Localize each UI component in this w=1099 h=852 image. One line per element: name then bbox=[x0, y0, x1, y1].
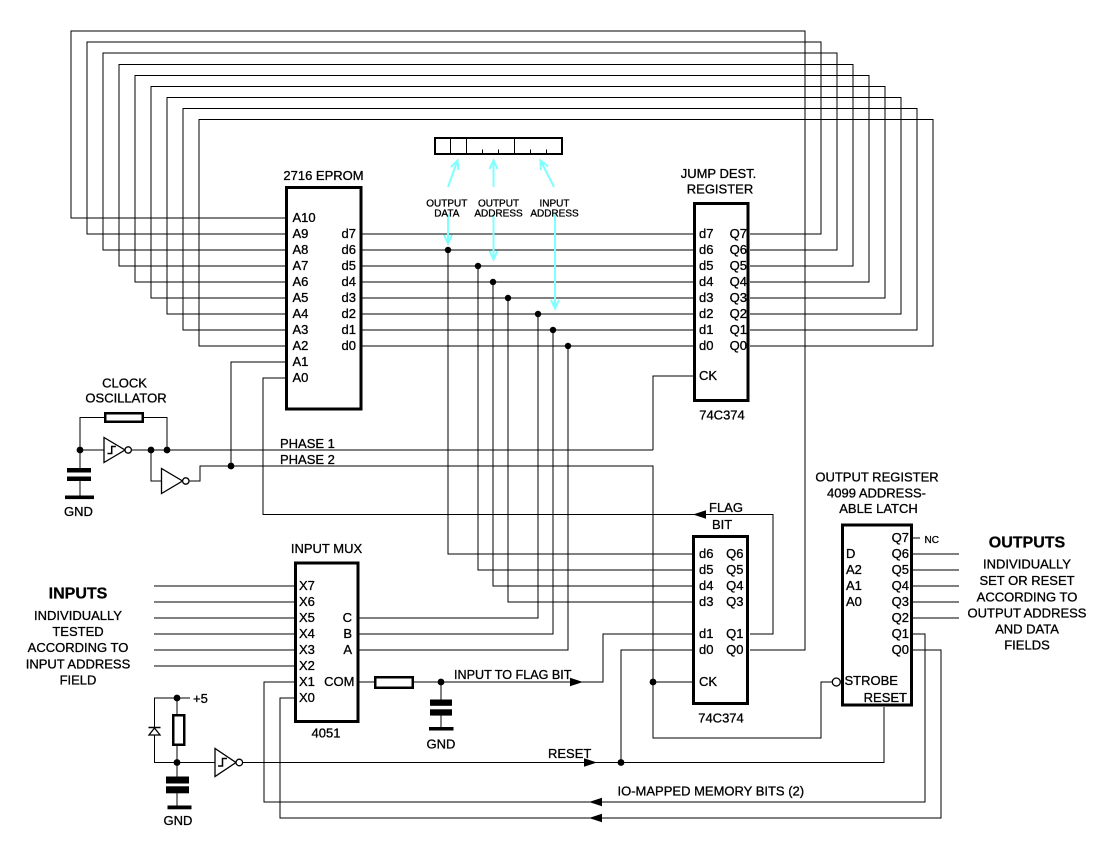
svg-text:A8: A8 bbox=[293, 242, 309, 257]
svg-text:d7: d7 bbox=[699, 226, 713, 241]
svg-text:ACCORDING TO: ACCORDING TO bbox=[28, 640, 129, 655]
svg-text:CK: CK bbox=[699, 674, 717, 689]
svg-text:JUMP DEST.: JUMP DEST. bbox=[681, 166, 757, 181]
svg-text:PHASE 1: PHASE 1 bbox=[280, 436, 335, 451]
svg-text:Q4: Q4 bbox=[730, 274, 747, 289]
svg-text:INPUT MUX: INPUT MUX bbox=[291, 541, 363, 556]
svg-text:d6: d6 bbox=[342, 242, 356, 257]
svg-text:2716 EPROM: 2716 EPROM bbox=[283, 168, 363, 183]
svg-text:A2: A2 bbox=[846, 562, 862, 577]
svg-text:X6: X6 bbox=[299, 594, 315, 609]
svg-text:A: A bbox=[343, 642, 352, 657]
svg-text:A9: A9 bbox=[293, 226, 309, 241]
svg-text:Q3: Q3 bbox=[892, 594, 909, 609]
svg-text:B: B bbox=[343, 626, 352, 641]
svg-text:d5: d5 bbox=[342, 258, 356, 273]
svg-text:ADDRESS: ADDRESS bbox=[474, 209, 523, 220]
svg-text:d0: d0 bbox=[699, 338, 713, 353]
svg-text:4051: 4051 bbox=[312, 726, 341, 741]
svg-text:Q0: Q0 bbox=[730, 338, 747, 353]
svg-text:X3: X3 bbox=[299, 642, 315, 657]
svg-text:d2: d2 bbox=[699, 306, 713, 321]
svg-text:d3: d3 bbox=[342, 290, 356, 305]
svg-text:ABLE LATCH: ABLE LATCH bbox=[839, 501, 918, 516]
svg-text:REGISTER: REGISTER bbox=[687, 182, 753, 197]
svg-text:Q1: Q1 bbox=[892, 626, 909, 641]
svg-text:d4: d4 bbox=[699, 578, 713, 593]
svg-text:Q4: Q4 bbox=[726, 578, 743, 593]
svg-text:ACCORDING TO: ACCORDING TO bbox=[977, 590, 1078, 605]
svg-text:d6: d6 bbox=[699, 242, 713, 257]
svg-text:RESET: RESET bbox=[548, 746, 591, 761]
svg-text:d3: d3 bbox=[699, 594, 713, 609]
svg-text:OUTPUT ADDRESS: OUTPUT ADDRESS bbox=[968, 606, 1087, 621]
svg-text:d3: d3 bbox=[699, 290, 713, 305]
svg-text:STROBE: STROBE bbox=[845, 673, 899, 688]
svg-text:INPUTS: INPUTS bbox=[49, 586, 108, 603]
svg-text:FIELD: FIELD bbox=[60, 673, 97, 688]
svg-text:Q0: Q0 bbox=[892, 642, 909, 657]
svg-text:d1: d1 bbox=[342, 322, 356, 337]
svg-text:OSCILLATOR: OSCILLATOR bbox=[85, 391, 166, 406]
svg-text:Q3: Q3 bbox=[726, 594, 743, 609]
svg-text:X0: X0 bbox=[299, 690, 315, 705]
svg-text:Q2: Q2 bbox=[730, 306, 747, 321]
svg-text:COM: COM bbox=[324, 674, 354, 689]
svg-text:Q6: Q6 bbox=[730, 242, 747, 257]
svg-text:Q6: Q6 bbox=[892, 546, 909, 561]
svg-text:Q4: Q4 bbox=[892, 578, 909, 593]
svg-text:TESTED: TESTED bbox=[52, 624, 103, 639]
svg-text:RESET: RESET bbox=[864, 690, 907, 705]
svg-text:Q1: Q1 bbox=[730, 322, 747, 337]
svg-text:d2: d2 bbox=[342, 306, 356, 321]
svg-text:Q7: Q7 bbox=[730, 226, 747, 241]
svg-text:A7: A7 bbox=[293, 258, 309, 273]
svg-text:X4: X4 bbox=[299, 626, 315, 641]
svg-text:NC: NC bbox=[925, 535, 939, 546]
svg-text:d4: d4 bbox=[342, 274, 356, 289]
svg-text:A1: A1 bbox=[293, 354, 309, 369]
svg-text:d6: d6 bbox=[699, 546, 713, 561]
svg-text:d0: d0 bbox=[699, 642, 713, 657]
svg-text:C: C bbox=[343, 610, 352, 625]
svg-text:A6: A6 bbox=[293, 274, 309, 289]
svg-text:X5: X5 bbox=[299, 610, 315, 625]
svg-text:d0: d0 bbox=[342, 338, 356, 353]
svg-text:INDIVIDUALLY: INDIVIDUALLY bbox=[983, 557, 1071, 572]
svg-text:FIELDS: FIELDS bbox=[1004, 638, 1050, 653]
svg-text:INPUT TO FLAG BIT: INPUT TO FLAG BIT bbox=[454, 667, 572, 682]
svg-text:Q5: Q5 bbox=[726, 562, 743, 577]
svg-text:IO-MAPPED MEMORY BITS (2): IO-MAPPED MEMORY BITS (2) bbox=[618, 784, 805, 799]
svg-text:Q7: Q7 bbox=[892, 530, 909, 545]
svg-text:BIT: BIT bbox=[712, 517, 732, 532]
svg-text:X2: X2 bbox=[299, 658, 315, 673]
svg-text:Q2: Q2 bbox=[892, 610, 909, 625]
svg-text:CK: CK bbox=[699, 368, 717, 383]
svg-text:74C374: 74C374 bbox=[698, 711, 744, 726]
svg-text:d1: d1 bbox=[699, 322, 713, 337]
svg-text:Q6: Q6 bbox=[726, 546, 743, 561]
svg-text:Q3: Q3 bbox=[730, 290, 747, 305]
svg-text:d5: d5 bbox=[699, 562, 713, 577]
svg-text:X7: X7 bbox=[299, 578, 315, 593]
svg-text:d5: d5 bbox=[699, 258, 713, 273]
svg-text:d1: d1 bbox=[699, 626, 713, 641]
svg-text:A1: A1 bbox=[846, 578, 862, 593]
svg-text:INDIVIDUALLY: INDIVIDUALLY bbox=[34, 608, 122, 623]
svg-text:A5: A5 bbox=[293, 290, 309, 305]
svg-text:A4: A4 bbox=[293, 306, 309, 321]
svg-text:GND: GND bbox=[164, 813, 193, 828]
svg-text:GND: GND bbox=[64, 504, 93, 519]
svg-text:OUTPUT REGISTER: OUTPUT REGISTER bbox=[815, 470, 938, 485]
svg-text:Q5: Q5 bbox=[730, 258, 747, 273]
svg-text:d4: d4 bbox=[699, 274, 713, 289]
svg-text:A0: A0 bbox=[846, 594, 862, 609]
svg-text:d7: d7 bbox=[342, 226, 356, 241]
svg-text:A3: A3 bbox=[293, 322, 309, 337]
svg-text:Q0: Q0 bbox=[726, 642, 743, 657]
svg-text:SET OR RESET: SET OR RESET bbox=[979, 573, 1074, 588]
svg-text:Q5: Q5 bbox=[892, 562, 909, 577]
svg-text:74C374: 74C374 bbox=[699, 408, 745, 423]
svg-text:PHASE 2: PHASE 2 bbox=[280, 452, 335, 467]
svg-text:A2: A2 bbox=[293, 338, 309, 353]
svg-text:DATA: DATA bbox=[434, 209, 460, 220]
svg-text:AND DATA: AND DATA bbox=[995, 622, 1059, 637]
svg-text:A10: A10 bbox=[293, 210, 316, 225]
svg-text:INPUT ADDRESS: INPUT ADDRESS bbox=[26, 657, 131, 672]
svg-text:X1: X1 bbox=[299, 674, 315, 689]
svg-text:4099 ADDRESS-: 4099 ADDRESS- bbox=[827, 486, 926, 501]
svg-text:OUTPUTS: OUTPUTS bbox=[989, 535, 1066, 552]
svg-text:ADDRESS: ADDRESS bbox=[530, 209, 579, 220]
svg-text:FLAG: FLAG bbox=[709, 500, 743, 515]
svg-text:GND: GND bbox=[427, 737, 456, 752]
svg-text:D: D bbox=[846, 546, 855, 561]
svg-text:A0: A0 bbox=[293, 370, 309, 385]
svg-text:Q1: Q1 bbox=[726, 626, 743, 641]
svg-text:CLOCK: CLOCK bbox=[102, 376, 147, 391]
svg-text:+5: +5 bbox=[193, 691, 208, 706]
